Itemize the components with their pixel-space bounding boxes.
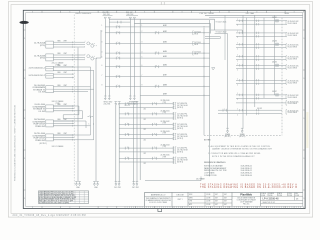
wire: lo rung 2b — [119, 117, 173, 119]
contact CU1 — [116, 26, 120, 29]
wire: right rung pair 8a — [218, 109, 282, 111]
svg-text:24C-C5: 24C-C5 — [125, 105, 130, 107]
wire: loop box bottom (dashed) — [204, 134, 282, 136]
svg-text:8: 8 — [144, 11, 145, 13]
svg-text:24C: 24C — [144, 163, 147, 165]
wire: 3046 tails — [53, 134, 90, 136]
svg-text:24C-TB1: 24C-TB1 — [114, 187, 121, 189]
svg-text:24-TI-3055 PNL: 24-TI-3055 PNL — [177, 158, 187, 160]
svg-text:WHT: WHT — [64, 65, 67, 67]
ground: loop terms — [226, 128, 229, 133]
wire: right bus x254.8 — [254, 15, 256, 107]
svg-text:PRESS SW: PRESS SW — [35, 126, 45, 128]
coil K1 — [275, 19, 279, 22]
svg-text:(NOTE 2): (NOTE 2) — [40, 143, 48, 145]
wire: right rung pair 5b — [236, 68, 286, 70]
svg-text:LVL SW: LVL SW — [38, 92, 45, 94]
wire: mid rail left — [139, 19, 141, 180]
svg-text:24C: 24C — [144, 139, 147, 141]
svg-text:9/07: 9/07 — [224, 194, 227, 196]
svg-text:+: + — [85, 41, 86, 43]
wire: lo rung 6b — [119, 161, 173, 163]
svg-text:PlantWeb: PlantWeb — [240, 192, 252, 196]
svg-text:AMEREN/CILCO: AMEREN/CILCO — [151, 193, 166, 196]
svg-text:PRINTED DOCUMENTS ARE UNCONTRO: PRINTED DOCUMENTS ARE UNCONTROLLED - VER… — [14, 104, 17, 181]
svg-text:(NOTE 2): (NOTE 2) — [177, 107, 184, 109]
svg-text:NOTE 3 IN THE 33936 DRAWINGS A: NOTE 3 IN THE 33936 DRAWINGS AREA LIST — [212, 155, 255, 158]
wire: right rung pair 3a — [236, 43, 286, 45]
contact CL1 — [125, 102, 129, 105]
contact CU4 — [116, 52, 120, 55]
svg-text:DWG: DWG — [288, 193, 291, 195]
svg-text:8: 8 — [219, 11, 220, 13]
svg-text:24-TY-304: 24-TY-304 — [194, 31, 201, 33]
wire: right rung pair 6b — [236, 83, 286, 85]
svg-text:24-TI-3051 PNL: 24-TI-3051 PNL — [177, 113, 187, 115]
svg-text:TERM: TERM — [284, 13, 289, 15]
svg-text:8: 8 — [256, 207, 257, 209]
wire: field run B upper — [100, 30, 102, 58]
svg-text:24-TE-3044 24C: 24-TE-3044 24C — [288, 56, 300, 58]
ground: bottom shield terminations — [75, 182, 78, 186]
wire: right rung pair 2a — [236, 32, 286, 34]
wire: lo rung 3a — [119, 123, 173, 125]
svg-text:8: 8 — [182, 11, 183, 13]
svg-text:LP-A 33936-48: LP-A 33936-48 — [263, 198, 280, 201]
contact CU2 — [116, 31, 120, 34]
svg-text:PNL 24C TERM: PNL 24C TERM — [200, 13, 215, 15]
svg-text:24C-TB2: 24C-TB2 — [132, 187, 139, 189]
punch hole — [19, 21, 28, 24]
svg-text:TB-102 SH 48: TB-102 SH 48 — [288, 35, 298, 37]
svg-text:(NOTE 1): (NOTE 1) — [239, 136, 245, 138]
svg-text:8: 8 — [69, 207, 70, 209]
svg-text:24-TE-3042 24C: 24-TE-3042 24C — [288, 33, 300, 35]
svg-text:TB-103 SH 48: TB-103 SH 48 — [288, 97, 298, 99]
svg-text:24-TI-3053 PNL: 24-TI-3053 PNL — [177, 134, 187, 136]
wire: field run A — [77, 48, 79, 182]
svg-text:8: 8 — [32, 11, 33, 13]
wire: field/panel boundary (dashed) — [73, 15, 75, 187]
svg-text:THE STAGING DRAWING IS BASED O: THE STAGING DRAWING IS BASED ON 23-E-360… — [200, 186, 297, 189]
svg-text:NONE: NONE — [278, 195, 282, 197]
svg-text:8: 8 — [107, 207, 108, 209]
wire: right rung pair 4a — [236, 55, 286, 57]
svg-text:TB-102 SH 48: TB-102 SH 48 — [288, 82, 298, 84]
wire: 3043 tails — [74, 86, 90, 88]
svg-text:TB-103 SH 48: TB-103 SH 48 — [288, 46, 298, 48]
contact CT0 — [118, 21, 121, 24]
svg-text:2 9/07 REVISED PER DCN 2007-: 2 9/07 REVISED PER DCN 2007-0421 STG JD … — [39, 192, 74, 194]
wire: right bus x243.0 — [242, 15, 244, 128]
svg-text:8: 8 — [294, 11, 295, 13]
wire: right rail top1 — [205, 14, 303, 16]
svg-text:DRW: DRW — [189, 197, 193, 199]
contact K1 — [88, 116, 90, 118]
contact CL5 — [125, 147, 129, 150]
svg-text:24C TB-2 SH 48: 24C TB-2 SH 48 — [177, 105, 188, 107]
svg-text:TB-103 SH 48: TB-103 SH 48 — [288, 103, 298, 105]
svg-text:24-TBD-3055: 24-TBD-3055 — [161, 155, 170, 157]
svg-text:(RTD): (RTD) — [40, 58, 45, 60]
svg-text:TB-101 SH 48: TB-101 SH 48 — [288, 23, 298, 25]
svg-text:24-TE-3046 24C: 24-TE-3046 24C — [288, 80, 300, 82]
wire: mid rail right — [209, 20, 211, 176]
svg-text:24-TE-3047 24C: 24-TE-3047 24C — [288, 95, 300, 97]
wire: mid rung u3 — [105, 42, 209, 44]
contact CU7 — [116, 75, 120, 78]
svg-text:DECOM: DECOM — [176, 194, 183, 196]
svg-text:LVL SW: LVL SW — [38, 111, 45, 113]
contact CL4 — [125, 133, 129, 136]
svg-text:E D E R D. DUCK CREEK: E D E R D. DUCK CREEK — [149, 202, 167, 204]
wire: loop box left — [203, 28, 205, 135]
svg-text:8: 8 — [256, 11, 257, 13]
ruler — [124, 206, 126, 208]
svg-text:24-TI-3050 PNL: 24-TI-3050 PNL — [177, 103, 187, 105]
svg-text:8: 8 — [69, 11, 70, 13]
svg-text:CHK: CHK — [189, 201, 192, 203]
wire: TE-3041B leads — [74, 54, 85, 56]
wire: lo rung 2a — [119, 113, 173, 115]
svg-text:24-TE-3042B 24C-2: 24-TE-3042B 24C-2 — [28, 75, 45, 77]
wire: mid rung u8 — [105, 85, 209, 87]
wire: lo rung 4a — [119, 134, 173, 136]
svg-text:24-TE-3043 24C: 24-TE-3043 24C — [288, 101, 300, 103]
svg-text:(NOTE 2): (NOTE 2) — [177, 117, 184, 119]
wire: bus pair TB1 — [104, 19, 106, 96]
wire: right rung pair 7a — [236, 94, 286, 96]
wire: lo rung 3b — [119, 127, 173, 129]
svg-text:33-E-33936-44: 33-E-33936-44 — [241, 175, 252, 177]
wire: lower bus pair 2 — [132, 102, 135, 106]
svg-text:24-TBD-3054: 24-TBD-3054 — [161, 145, 170, 147]
stain (scan artifact) — [306, 112, 308, 148]
wire: loop box right (dashed) — [281, 18, 283, 136]
wire: right rung pair 2b — [236, 35, 286, 37]
wire: right rail top2 — [209, 17, 303, 19]
wire: group 3042 tails — [53, 66, 90, 68]
svg-text:24C: 24C — [144, 119, 147, 121]
wire: loop inner B — [241, 30, 243, 33]
svg-text:24C-K3: 24C-K3 — [272, 41, 277, 43]
svg-text:PRESS SW: PRESS SW — [35, 140, 45, 142]
svg-text:24-TBD-3050: 24-TBD-3050 — [161, 100, 170, 102]
svg-text:24C CAB: 24C CAB — [246, 12, 255, 15]
wire: bottom rail — [145, 180, 201, 182]
wire: 3045 tails — [53, 120, 86, 122]
wire: mid rung u4 — [105, 52, 209, 54]
svg-text:9/07: 9/07 — [215, 204, 218, 206]
contact CU3 — [116, 42, 120, 45]
svg-text:WHT: WHT — [64, 72, 67, 74]
svg-text:9/07: 9/07 — [215, 201, 218, 203]
svg-text:PNL 24C: PNL 24C — [243, 204, 250, 206]
svg-text:1: 1 — [89, 123, 90, 125]
svg-text:(RTD): (RTD) — [40, 45, 45, 47]
svg-text:24-TBD-3053: 24-TBD-3053 — [161, 131, 170, 133]
svg-text:24-TY-304: 24-TY-304 — [194, 52, 201, 54]
svg-text:WHT: WHT — [64, 53, 67, 55]
wire: lo rung 5b — [119, 151, 173, 153]
revision table — [38, 191, 88, 204]
wire: mid rung u1 — [105, 26, 209, 28]
wire: mid rung u5 — [105, 57, 209, 59]
svg-text:NONE: NONE — [261, 195, 265, 197]
svg-text:24C TB-2 SH 48: 24C TB-2 SH 48 — [177, 150, 188, 152]
svg-text:24C_31_YV3036_48_Rev_2.dgn 9/: 24C_31_YV3036_48_Rev_2.dgn 9/28/2007 3:0… — [13, 215, 86, 217]
wire: mid rung u7 — [105, 76, 209, 78]
svg-text:SH 49: SH 49 — [194, 33, 198, 35]
svg-text:REFERENCE DRAWINGS:: REFERENCE DRAWINGS: — [204, 161, 226, 164]
svg-text:+: + — [85, 53, 86, 55]
wire: right rung pair 1b — [236, 23, 286, 25]
coil K3 — [275, 43, 279, 46]
svg-text:WHT: WHT — [64, 40, 67, 42]
contact CU8 — [116, 85, 120, 88]
wire: lower bus pair 1 — [114, 102, 117, 106]
svg-text:(NOTE 2): (NOTE 2) — [177, 138, 184, 140]
svg-text:24-TE-3041 24C: 24-TE-3041 24C — [288, 21, 300, 23]
wire: aux vertical — [224, 15, 226, 60]
wire: lo rung 1b — [119, 107, 173, 109]
svg-text:TB-101 SH 48: TB-101 SH 48 — [288, 67, 298, 69]
node: drain symbol — [212, 68, 215, 70]
coil K5 — [275, 64, 279, 67]
contact CL2 — [125, 113, 129, 116]
svg-text:REV: REV — [295, 193, 298, 195]
svg-text:24C TB-2 SH 48: 24C TB-2 SH 48 — [177, 160, 188, 162]
svg-text:9/07: 9/07 — [215, 194, 218, 196]
svg-text:24C-K9: 24C-K9 — [257, 108, 262, 110]
wire: right rung single — [236, 102, 286, 104]
svg-text:NOTES:: NOTES: — [204, 140, 212, 142]
svg-text:24C-TB1: 24C-TB1 — [104, 103, 111, 105]
svg-text:SH 49: SH 49 — [194, 44, 198, 46]
svg-text:J.DOE: J.DOE — [206, 201, 210, 203]
svg-text:24C TB-2 SH 48: 24C TB-2 SH 48 — [177, 136, 188, 138]
wire: right rung pair 4b — [236, 59, 286, 61]
wire: right bus x274.5 — [274, 15, 276, 95]
wire: u-turn loop — [205, 36, 221, 38]
svg-text:24C: 24C — [144, 153, 147, 155]
wire: lo rung 1a — [119, 103, 173, 105]
wire: mid rung u9 — [140, 94, 209, 96]
svg-text:24C: 24C — [144, 109, 147, 111]
contact CL3 — [125, 123, 129, 126]
svg-text:24-TE-3042A 24C-1: 24-TE-3042A 24C-1 — [29, 67, 45, 70]
svg-text:1 6/07 REVISED PER DCN 2007-: 1 6/07 REVISED PER DCN 2007-0388 STG JD … — [39, 193, 74, 195]
svg-text:24-TE-3043 24C: 24-TE-3043 24C — [288, 44, 300, 46]
svg-text:24C TB-2 SH 48: 24C TB-2 SH 48 — [177, 126, 188, 128]
svg-text:J.DOE: J.DOE — [206, 204, 210, 206]
svg-text:9/07: 9/07 — [224, 204, 227, 206]
svg-text:J.DOE: J.DOE — [206, 194, 210, 196]
svg-text:24-TE-3040 24C: 24-TE-3040 24C — [288, 110, 300, 112]
wire: right rung pair 1a — [236, 20, 286, 22]
svg-text:8: 8 — [32, 207, 33, 209]
svg-text:24C-C3 CABLE: 24C-C3 CABLE — [52, 145, 65, 148]
wire: mid rung u6 — [105, 66, 209, 68]
contact CU5 — [116, 57, 120, 60]
svg-text:24-TBD-3052: 24-TBD-3052 — [161, 121, 170, 123]
svg-text:24-TI-3054 PNL: 24-TI-3054 PNL — [177, 148, 187, 150]
wire: field run B — [95, 58, 97, 182]
svg-text:NONE: NONE — [269, 195, 273, 197]
coil K7 — [275, 93, 279, 96]
svg-text:SH 49: SH 49 — [194, 54, 198, 56]
svg-text:24C-K1: 24C-K1 — [272, 17, 277, 19]
wire: right rung pair 8b — [218, 113, 282, 115]
svg-text:24-TE-3045 24C: 24-TE-3045 24C — [288, 65, 300, 67]
contact CL6 — [125, 157, 129, 160]
svg-text:24C-K5: 24C-K5 — [272, 62, 277, 64]
svg-text:24C: 24C — [144, 129, 147, 131]
wire: right rung pair 7b — [236, 97, 286, 99]
svg-text:9/07: 9/07 — [224, 201, 227, 203]
svg-text:CABINET UNLESS OTHERWISE NOTED: CABINET UNLESS OTHERWISE NOTED ON THIS D… — [212, 148, 272, 151]
wire: TE-3041A leads — [74, 41, 85, 43]
svg-text:(NOTE 2): (NOTE 2) — [177, 128, 184, 130]
svg-text:(NOTE 1): (NOTE 1) — [225, 136, 231, 138]
svg-text:TB-100 SH 48: TB-100 SH 48 — [288, 58, 298, 60]
title block — [145, 191, 303, 193]
svg-text:(NOTE 2): (NOTE 2) — [177, 152, 184, 154]
svg-text:8: 8 — [182, 207, 183, 209]
wire: top rail 1 — [109, 18, 214, 20]
svg-text:24C-K7: 24C-K7 — [272, 91, 277, 93]
svg-text:FIELD TERM BOX: FIELD TERM BOX — [76, 13, 92, 15]
svg-text:CONNECTIONS: CONNECTIONS — [204, 175, 217, 177]
svg-text:24-TI-3052 PNL: 24-TI-3052 PNL — [177, 124, 187, 126]
wire: tb interconnect — [109, 21, 130, 23]
wire: lo rung 4b — [119, 137, 173, 139]
svg-text:24-TBD-3051: 24-TBD-3051 — [161, 110, 170, 112]
wire: right rung pair 6a — [236, 79, 286, 81]
svg-text:9/07: 9/07 — [224, 197, 227, 199]
wire: right bus x264.0 — [263, 18, 265, 98]
wire: 3044 tails / nested loop — [53, 105, 79, 107]
svg-text:J.DOE: J.DOE — [206, 197, 210, 199]
svg-text:2: 2 — [93, 123, 94, 125]
svg-text:WHT: WHT — [64, 85, 67, 87]
svg-text:(NOTE 2): (NOTE 2) — [177, 162, 184, 164]
svg-text:2. CONDUCTOR AND WIRE WILL CO: 2. CONDUCTOR AND WIRE WILL COME AS PER D… — [208, 152, 260, 155]
wire: bus pair TB2 — [129, 19, 131, 96]
wire: loop inner A — [227, 34, 229, 129]
svg-text:DSN: DSN — [189, 194, 192, 196]
svg-text:NONE: NONE — [295, 195, 299, 197]
wire: right rung pair 5a — [236, 64, 286, 66]
svg-text:THE STAGING DRAWING IS BASED O: THE STAGING DRAWING IS BASED ON 23-E-330… — [200, 184, 297, 187]
svg-text:UNIT 1: UNIT 1 — [177, 199, 182, 201]
svg-text:24-TY-304: 24-TY-304 — [194, 42, 201, 44]
svg-text:SHEET 48 OF 62: SHEET 48 OF 62 — [263, 202, 275, 204]
svg-text:9/07: 9/07 — [215, 197, 218, 199]
wire: lo rung 6a — [119, 157, 173, 159]
contact CU6 — [116, 65, 120, 68]
wire: right rung pair 3b — [236, 47, 286, 49]
wire: top rail 2 — [134, 23, 210, 25]
svg-text:NONE: NONE — [288, 195, 292, 197]
wire: right bus x246.5 — [246, 18, 248, 116]
wire: lo rung 5a — [119, 147, 173, 149]
wire: mid rung u2 — [105, 32, 209, 34]
svg-text:24C TB-2 SH 48: 24C TB-2 SH 48 — [177, 115, 188, 117]
svg-text:TB-100 SH 48: TB-100 SH 48 — [288, 112, 298, 114]
